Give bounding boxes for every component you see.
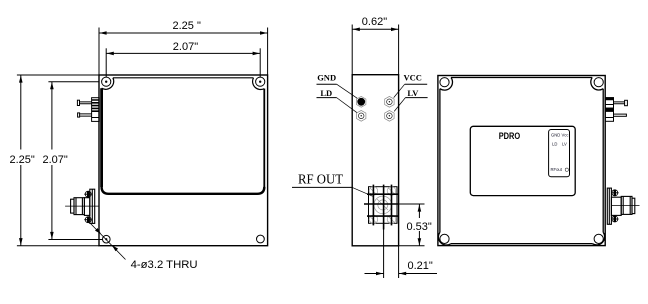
- svg-text:2.07": 2.07": [173, 41, 198, 53]
- svg-text:RFout: RFout: [551, 167, 563, 172]
- side body outline: [352, 75, 398, 246]
- feedthrough pin 2: [78, 113, 92, 117]
- leader arrowhead lower: [112, 245, 118, 251]
- svg-text:2.25": 2.25": [10, 154, 35, 166]
- RF connector flange (rear view): [369, 187, 398, 224]
- VCC pin hex: [385, 96, 394, 107]
- svg-text:0.53": 0.53": [407, 221, 432, 233]
- lid left edge (thick): [100, 88, 103, 187]
- SMA centerline: [65, 205, 99, 207]
- front screw hole top-right: [594, 78, 603, 87]
- right SMA mounting screw bottom: [611, 216, 618, 222]
- RF connector corner hole hatching: [369, 187, 396, 225]
- right SMA flange plate: [607, 188, 611, 224]
- right SMA centerline: [611, 204, 639, 206]
- front screw hole bottom-right: [594, 234, 603, 243]
- svg-text:LD: LD: [320, 88, 332, 98]
- front panel outline: [438, 76, 605, 246]
- dimension 2.07 inch horizontal (top): [106, 48, 260, 77]
- SMA mounting screw bottom: [84, 217, 91, 223]
- screw hole bottom-right: [257, 235, 265, 243]
- svg-text:GND: GND: [317, 73, 336, 83]
- screw hole top-right: [256, 77, 265, 86]
- screw hole top-left: [102, 77, 111, 86]
- right SMA end cap: [632, 198, 635, 213]
- right SMA mounting screw top: [611, 190, 618, 196]
- dimension 0.53 inch (right of RF connector): [399, 204, 425, 246]
- dimension 2.25 inch horizontal (top): [99, 28, 268, 75]
- right SMA hex nut: [621, 196, 632, 214]
- leader LV: [394, 98, 405, 112]
- GND pin (filled) hex: [357, 96, 366, 107]
- legend RF hole: [565, 168, 568, 171]
- DC feedthrough connector block, right side: [605, 98, 613, 122]
- svg-text:VCC: VCC: [404, 73, 422, 83]
- RF connector grid lines: [364, 185, 399, 230]
- lid top-right corner scallop around screw: [253, 78, 265, 90]
- front screw hole bottom-left: [440, 234, 449, 243]
- feedthrough pin 1 (with cap): [77, 100, 91, 105]
- SMA hex nut: [74, 198, 84, 215]
- screw hole bottom-left: [103, 235, 111, 243]
- dimension 0.21 inch (bottom): [365, 230, 438, 279]
- LV pin hex: [385, 110, 394, 121]
- dimension 0.62 inch (top): [352, 25, 398, 75]
- lid right edge: [263, 89, 265, 187]
- lid bottom edge (thick) with rounded corners: [102, 187, 265, 194]
- svg-text:2.07": 2.07": [43, 154, 68, 166]
- SMA mounting screw top: [84, 191, 91, 197]
- svg-text:4-ø3.2 THRU: 4-ø3.2 THRU: [131, 259, 198, 271]
- svg-text:2.25 ": 2.25 ": [173, 20, 201, 32]
- front lid inner outline with corner scallops: [438, 78, 604, 246]
- dimension 2.07 inch vertical (left): [48, 82, 102, 240]
- lid top-left corner scallop around screw: [102, 78, 114, 90]
- svg-text:PDRO: PDRO: [499, 131, 521, 141]
- product label plate: [470, 126, 575, 195]
- SMA body barrel: [84, 198, 89, 216]
- right feedthrough pin 1 (with cap): [614, 100, 628, 105]
- leader line for thru holes: [91, 224, 126, 260]
- svg-text:0.21": 0.21": [408, 260, 433, 272]
- leader RF OUT: [352, 187, 372, 196]
- LD pin hex: [357, 110, 366, 121]
- SMA flange plate: [90, 189, 95, 223]
- right feedthrough pin 2: [614, 114, 627, 116]
- svg-text:0.62": 0.62": [362, 16, 387, 28]
- leader arrowhead upper: [95, 228, 101, 234]
- SMA end cap: [71, 199, 74, 213]
- leader VCC: [394, 84, 405, 97]
- DC feedthrough connector block, left side: [92, 98, 100, 122]
- leader GND: [337, 84, 358, 98]
- svg-text:LV: LV: [407, 88, 419, 98]
- front screw hole top-left: [440, 78, 449, 87]
- svg-text:LD LV: LD LV: [552, 142, 567, 147]
- dimension 2.25 inch vertical (left): [17, 75, 99, 246]
- right SMA body barrel: [611, 197, 621, 215]
- leader LD: [337, 98, 357, 113]
- svg-text:RF OUT: RF OUT: [298, 172, 343, 187]
- svg-text:GND Vcc: GND Vcc: [551, 133, 568, 138]
- lid top edge: [113, 77, 254, 79]
- pin legend box: [549, 130, 570, 177]
- enclosure base outline: [99, 75, 268, 246]
